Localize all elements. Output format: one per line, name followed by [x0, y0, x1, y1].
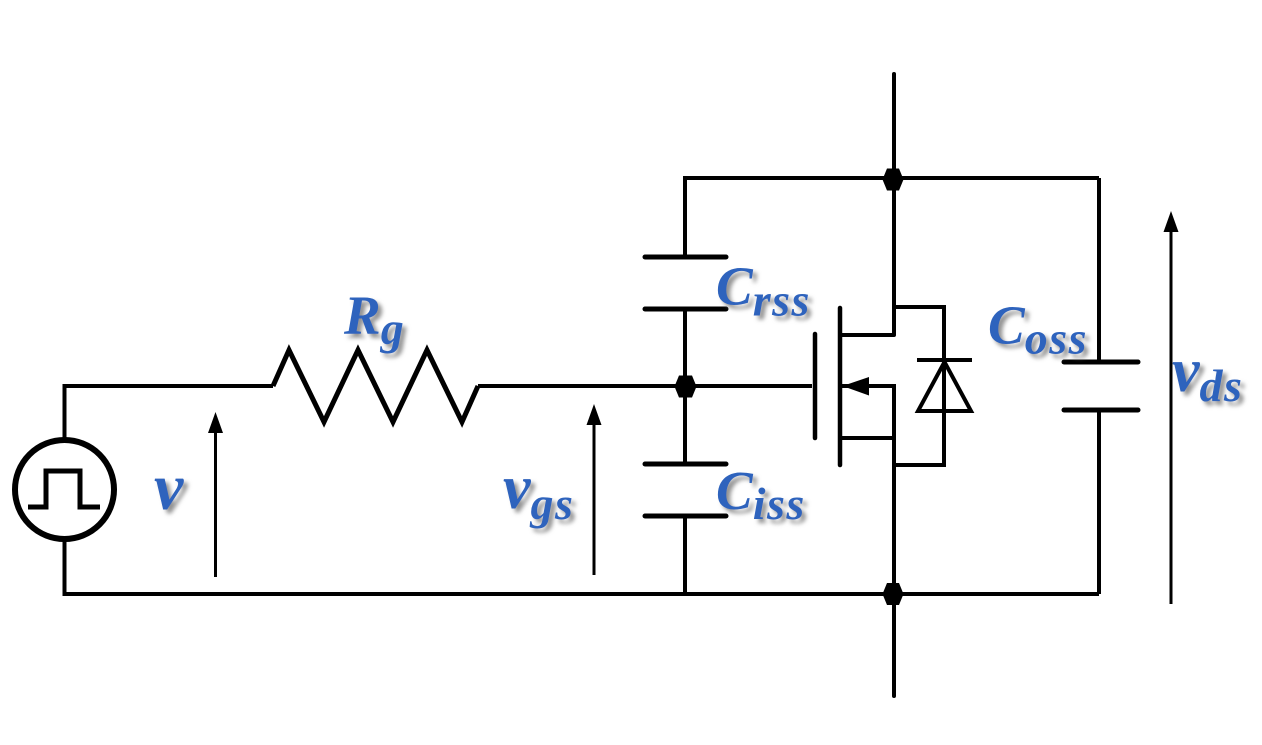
wire: source top lead up and right to resistor: [65, 386, 274, 440]
junction node gate (hexagon dot): [675, 376, 697, 398]
wire: bottom rail: [63, 592, 1100, 596]
MOSFET Q1: gate bar: [813, 334, 818, 438]
wire: source bottom lead down: [63, 538, 67, 592]
svg-text:vds: vds: [1172, 337, 1243, 411]
body diode D1 triangle: [918, 362, 971, 411]
arrow vds: [1164, 211, 1179, 604]
MOSFET Q1: channel bar: [838, 308, 843, 465]
body diode D1 branch: [894, 307, 944, 465]
resistor Rg zigzag: [273, 350, 478, 422]
capacitor Coss: [1064, 362, 1138, 410]
body diode D1 cathode bar: [917, 358, 972, 362]
wire: drain stub above: [892, 74, 896, 335]
svg-text:Rg: Rg: [343, 285, 405, 354]
wire: source stub below: [892, 594, 896, 696]
wire: left branch down to Crss: [683, 176, 687, 257]
arrow vgs: [587, 404, 602, 575]
svg-text:Coss: Coss: [988, 295, 1088, 364]
capacitor Ciss: [645, 386, 726, 594]
capacitor Crss: [645, 257, 726, 309]
wire: resistor to gate: [478, 384, 812, 388]
wire: Crss to gate node: [683, 309, 687, 386]
MOSFET Q1: drain tap: [840, 333, 894, 337]
wire: right branch down to Coss: [1097, 178, 1101, 362]
pulse waveform symbol inside V1: [28, 471, 100, 507]
MOSFET Q1: source tap: [840, 436, 894, 440]
svg-text:Crss: Crss: [716, 256, 811, 326]
svg-text:v: v: [154, 451, 184, 524]
pulse voltage source V1 circle: [15, 440, 114, 539]
arrow v (source voltage): [208, 412, 223, 577]
junction node source (hexagon dot): [883, 583, 904, 605]
svg-text:vgs: vgs: [503, 454, 574, 529]
wire: Coss down to bottom rail: [1097, 410, 1101, 594]
junction node drain (hexagon dot): [883, 169, 904, 191]
svg-text:Ciss: Ciss: [716, 460, 806, 529]
wire: top rail: [685, 176, 1099, 180]
MOSFET Q1: body tap with arrow: [840, 377, 894, 696]
